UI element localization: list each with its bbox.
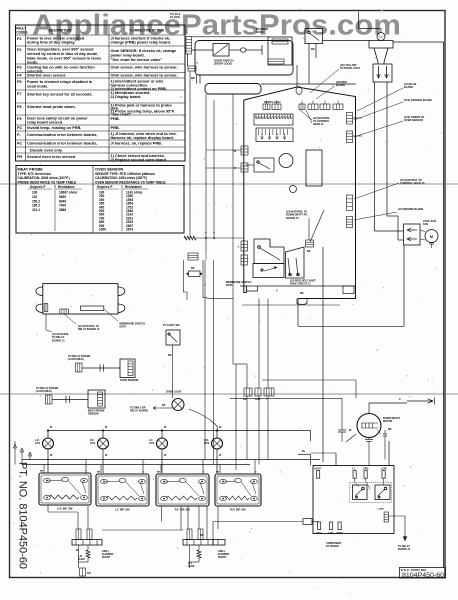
svg-text:(J3 DOUBLE): (J3 DOUBLE): [36, 390, 52, 393]
svg-text:Double oven only: Double oven only: [30, 149, 63, 153]
svg-text:CLOCK: CLOCK: [170, 15, 180, 19]
svg-text:Power to element relays disabl: Power to element relays disabled in: [27, 80, 93, 84]
svg-text:LOW: LOW: [381, 468, 387, 471]
svg-text:8104P450-60: 8104P450-60: [402, 572, 445, 579]
svg-text:Communication error between bo: Communication error between boards,: [27, 142, 97, 146]
svg-text:150.2: 150.2: [32, 199, 40, 203]
svg-text:during time of day display.: during time of day display.: [27, 41, 75, 45]
svg-text:190.2: 190.2: [32, 204, 40, 208]
svg-text:PC BOARD: PC BOARD: [326, 545, 339, 548]
svg-text:FC: FC: [17, 142, 22, 146]
svg-text:Second oven error sensed: Second oven error sensed: [27, 155, 76, 159]
svg-text:TO DOOR LOCK: TO DOOR LOCK: [340, 66, 360, 70]
svg-text:R.R. INF. SW.: R.R. INF. SW.: [230, 507, 246, 511]
svg-text:(DOOR LOCK): (DOOR LOCK): [214, 62, 232, 66]
svg-text:9630: 9630: [59, 195, 66, 199]
svg-text:BOARD J1: BOARD J1: [52, 339, 65, 342]
svg-text:FR: FR: [17, 155, 22, 159]
svg-text:FAN: FAN: [423, 223, 428, 226]
svg-text:CODES: CODES: [16, 31, 27, 35]
svg-text:OVEN SENSOR: OVEN SENSOR: [95, 168, 123, 172]
svg-text:BK: BK: [191, 267, 195, 270]
svg-text:Resistance: Resistance: [125, 185, 142, 189]
svg-text:Oven temperature, over 600° se: Oven temperature, over 600° sensed: [27, 48, 94, 52]
svg-text:M: M: [430, 235, 433, 239]
svg-text:BOARD J4: BOARD J4: [398, 548, 411, 551]
svg-text:BLANK: BLANK: [336, 83, 345, 87]
svg-text:"See chart for sensor value": "See chart for sensor value": [111, 58, 163, 62]
svg-text:SHUNT: SHUNT: [102, 556, 111, 559]
svg-text:JI harness, ok, replace PRB.: JI harness, ok, replace PRB.: [111, 142, 163, 146]
svg-text:GRD: GRD: [363, 468, 369, 471]
svg-text:TO LIGHT SW: TO LIGHT SW: [163, 324, 180, 327]
svg-text:HEAT: HEAT: [315, 468, 322, 471]
svg-text:(J10) ORANGE BLANK: (J10) ORANGE BLANK: [404, 98, 432, 102]
svg-text:BK: BK: [157, 472, 161, 474]
svg-text:(J4 DOUBLE): (J4 DOUBLE): [68, 358, 84, 361]
svg-text:MEAT PROBE: MEAT PROBE: [18, 168, 44, 172]
svg-text:L GRD: L GRD: [377, 509, 384, 511]
svg-text:F2: F2: [17, 48, 22, 52]
svg-text:BAKE: BAKE: [337, 532, 344, 535]
svg-text:GRILL: GRILL: [316, 533, 323, 535]
svg-text:(J7) BROWN BLANK: (J7) BROWN BLANK: [398, 207, 423, 211]
svg-text:sensed by control in time of d: sensed by control in time of day mode,: [27, 52, 98, 56]
svg-text:BOARD J4: BOARD J4: [286, 217, 299, 220]
svg-text:LOCK: LOCK: [256, 30, 263, 34]
svg-text:F7: F7: [17, 92, 22, 96]
svg-text:DATA: DATA: [226, 284, 233, 287]
svg-text:DESCRIPTION: DESCRIPTION: [49, 29, 71, 33]
svg-text:C: C: [399, 398, 401, 401]
svg-text:CORRECTIVE ACTION: CORRECTIVE ACTION: [130, 29, 165, 33]
svg-text:BK: BK: [97, 472, 101, 474]
svg-text:BLANK: BLANK: [404, 85, 413, 89]
svg-text:ELEM: ELEM: [78, 558, 85, 561]
svg-text:Degrees F: Degrees F: [30, 185, 45, 189]
svg-text:F3: F3: [17, 66, 22, 70]
svg-text:BK: BK: [40, 471, 44, 473]
svg-text:L.R. INF. SW.: L.R. INF. SW.: [57, 506, 73, 510]
svg-text:PRB.: PRB.: [111, 126, 120, 130]
svg-text:3886: 3886: [59, 208, 66, 212]
svg-text:Y: Y: [196, 61, 198, 65]
svg-text:Ohm sensor, wire harness to se: Ohm sensor, wire harness to sensor.: [111, 66, 178, 70]
svg-text:BK: BK: [388, 428, 392, 431]
svg-text:10667 ohms: 10667 ohms: [59, 191, 77, 195]
svg-text:relay board sensed.: relay board sensed.: [27, 121, 63, 125]
svg-text:BK: BK: [307, 250, 311, 253]
svg-text:Ohm SENSOR. If checks ok, chan: Ohm SENSOR. If checks ok, change: [111, 49, 177, 53]
svg-text:BK: BK: [311, 47, 315, 51]
svg-text:L.F. INF. SW.: L.F. INF. SW.: [115, 507, 130, 511]
svg-text:2) Display board.: 2) Display board.: [111, 95, 142, 99]
svg-text:"See chart": "See chart": [111, 113, 132, 117]
svg-text:PRB.: PRB.: [111, 117, 120, 121]
svg-text:2) Replace second oven board.: 2) Replace second oven board.: [111, 158, 168, 162]
svg-text:MOTOR: MOTOR: [383, 420, 392, 423]
svg-text:F9: F9: [17, 117, 22, 121]
svg-text:change (PRB) power relay board: change (PRB) power relay board.: [111, 41, 171, 45]
svg-text:FC: FC: [17, 126, 22, 130]
svg-text:OVEN LIGHT: OVEN LIGHT: [166, 391, 182, 394]
svg-text:BAKE CIRCUIT L2: BAKE CIRCUIT L2: [290, 282, 311, 285]
svg-text:BK: BK: [300, 292, 304, 295]
svg-text:122: 122: [32, 195, 38, 199]
svg-text:8946: 8946: [59, 199, 66, 203]
svg-text:Resistance: Resistance: [58, 185, 75, 189]
svg-text:Shorted oven sensor.: Shorted oven sensor.: [27, 74, 66, 78]
svg-text:mode.: mode.: [27, 61, 38, 65]
svg-text:SENSOR: SENSOR: [88, 413, 99, 416]
svg-text:RELAY BOARD J2: RELAY BOARD J2: [78, 328, 100, 331]
svg-text:Invalid temp, reading on PRB.: Invalid temp, reading on PRB.: [27, 126, 81, 130]
svg-text:RELAY BOARD: RELAY BOARD: [130, 410, 148, 413]
svg-text:Degrees F: Degrees F: [97, 185, 112, 189]
svg-text:GR: GR: [87, 572, 91, 575]
svg-text:2874: 2874: [126, 228, 133, 232]
svg-text:power relay board.: power relay board.: [111, 53, 145, 57]
svg-text:LITE: LITE: [204, 442, 210, 445]
svg-text:Ohm sensor, wire harness to se: Ohm sensor, wire harness to sensor.: [111, 74, 178, 78]
svg-text:BK: BK: [162, 404, 166, 407]
svg-text:7400: 7400: [59, 204, 66, 208]
svg-text:Shorted meat probe alarm.: Shorted meat probe alarm.: [27, 105, 76, 109]
svg-text:OVEN SENSOR: OVEN SENSOR: [120, 379, 139, 382]
svg-text:Communication error between bo: Communication error between boards,: [27, 133, 97, 137]
svg-text:bake mode, or over 900° sensed: bake mode, or over 900° sensed in clean: [27, 56, 102, 60]
svg-text:cook mode.: cook mode.: [27, 84, 48, 88]
svg-text:L.L: L.L: [379, 36, 383, 39]
svg-text:HEAD J1: HEAD J1: [313, 123, 324, 126]
svg-text:CONTROL HEAD J3: CONTROL HEAD J3: [400, 181, 425, 185]
svg-text:PROBE RESISTANCE VS TEMP TABLE: PROBE RESISTANCE VS TEMP TABLE: [18, 180, 77, 184]
svg-text:FUSE: FUSE: [188, 565, 195, 568]
svg-text:Harness ok, replace display bo: Harness ok, replace display board.: [111, 136, 174, 140]
svg-text:BK: BK: [216, 472, 220, 474]
svg-text:BL: BL: [302, 450, 306, 453]
svg-text:SHUNT: SHUNT: [218, 556, 227, 559]
svg-text:OVEN SENSOR: OVEN SENSOR: [404, 118, 423, 122]
svg-text:1000: 1000: [99, 228, 106, 232]
svg-text:LITE: LITE: [149, 442, 155, 445]
svg-text:LITE: LITE: [35, 442, 41, 445]
svg-text:210.1: 210.1: [32, 208, 40, 212]
svg-text:100: 100: [32, 191, 38, 195]
svg-text:PT. NO. 8104P450-60: PT. NO. 8104P450-60: [17, 462, 29, 569]
svg-text:OVEN SENSOR RESISTANCE VS TEMP: OVEN SENSOR RESISTANCE VS TEMP TABLE: [95, 180, 166, 184]
svg-text:LITE: LITE: [90, 442, 96, 445]
svg-text:R: R: [234, 167, 236, 170]
svg-text:BK: BK: [191, 76, 195, 80]
svg-text:Shorted key sensed for 32 seco: Shorted key sensed for 32 seconds.: [27, 93, 93, 97]
svg-text:DATA: DATA: [120, 326, 127, 329]
svg-text:BK: BK: [168, 354, 172, 357]
svg-text:BK: BK: [200, 534, 204, 537]
svg-text:1) Probe jack or harness to pr: 1) Probe jack or harness to probe: [111, 104, 172, 108]
